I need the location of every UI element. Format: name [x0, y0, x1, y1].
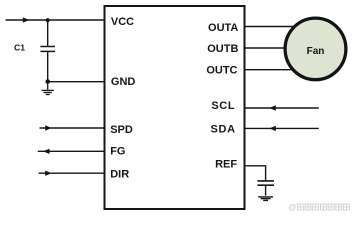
capacitor C1 plates	[40, 47, 55, 52]
capacitor C2 (REF) plates	[257, 181, 274, 185]
watermark	[288, 202, 350, 212]
wire REF cap to ground	[265, 186, 267, 196]
svg-text:SDA: SDA	[210, 123, 235, 135]
ground symbol (REF cap)	[258, 197, 273, 201]
wire REF	[245, 166, 266, 180]
wire SPD	[40, 127, 105, 129]
arrow into DIR	[45, 171, 51, 176]
junction node VCC/C1	[46, 18, 50, 22]
arrow into SDA	[269, 126, 276, 131]
svg-text:VCC: VCC	[111, 16, 134, 28]
svg-text:REF: REF	[215, 158, 237, 170]
svg-text:OUTB: OUTB	[207, 43, 238, 55]
svg-text:@: @	[288, 202, 297, 212]
IC U1 body	[105, 6, 245, 209]
wire DIR	[39, 172, 105, 174]
svg-text:FG: FG	[110, 146, 125, 158]
wire OUTB	[245, 47, 317, 49]
wire OUTA	[245, 26, 317, 28]
wire VCC input	[6, 19, 105, 21]
wire SCL	[245, 107, 319, 109]
wire GND	[48, 81, 105, 83]
svg-text:OUTC: OUTC	[206, 65, 237, 77]
wire OUTC	[245, 69, 317, 71]
wire SDA	[245, 127, 319, 129]
svg-text:GND: GND	[111, 76, 135, 88]
ground symbol (C1)	[42, 82, 54, 95]
arrow into SPD	[45, 125, 51, 130]
svg-text:Fan: Fan	[307, 46, 325, 57]
wire C1 top lead	[47, 20, 49, 46]
wire FG	[38, 150, 105, 152]
wire C1 bottom lead	[47, 52, 49, 82]
fan M1 circle	[285, 18, 346, 80]
svg-text:SPD: SPD	[110, 124, 133, 136]
svg-text:OUTA: OUTA	[208, 22, 238, 34]
arrow into SCL	[269, 105, 276, 110]
svg-text:C1: C1	[14, 42, 25, 52]
arrow out of FG	[43, 149, 49, 154]
arrow into VCC	[23, 17, 29, 22]
junction node GND/C1	[45, 79, 50, 84]
svg-text:SCL: SCL	[211, 100, 235, 112]
svg-text:DIR: DIR	[110, 169, 129, 181]
